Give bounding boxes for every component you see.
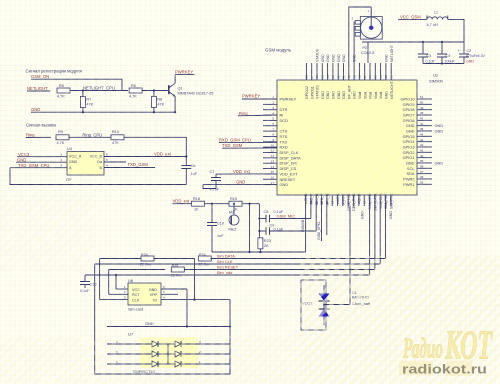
svg-text:radiokot.ru: radiokot.ru bbox=[402, 362, 487, 377]
svg-text:Радио: Радио bbox=[402, 333, 443, 365]
